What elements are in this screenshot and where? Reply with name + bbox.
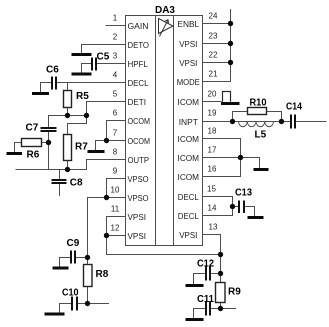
svg-text:13: 13: [209, 223, 218, 232]
svg-text:12: 12: [111, 224, 120, 233]
svg-text:11: 11: [111, 205, 120, 214]
svg-text:10: 10: [111, 186, 120, 195]
svg-text:GAIN: GAIN: [128, 21, 149, 31]
svg-text:VPSO: VPSO: [128, 174, 149, 184]
svg-text:ICOM: ICOM: [178, 172, 200, 182]
svg-text:C7: C7: [26, 123, 39, 134]
svg-text:C5: C5: [97, 52, 110, 63]
svg-text:19: 19: [208, 109, 217, 118]
svg-text:ICOM: ICOM: [178, 153, 200, 163]
svg-text:R5: R5: [76, 91, 89, 102]
svg-text:3: 3: [113, 52, 118, 61]
svg-text:7: 7: [113, 129, 118, 138]
svg-text:1: 1: [113, 14, 118, 23]
svg-text:MODE: MODE: [177, 77, 200, 87]
svg-text:VPSI: VPSI: [179, 39, 197, 49]
svg-text:5: 5: [113, 90, 118, 99]
svg-text:18: 18: [208, 127, 217, 136]
svg-text:R9: R9: [228, 287, 241, 298]
svg-text:DECL: DECL: [178, 192, 199, 202]
svg-text:C10: C10: [62, 288, 79, 299]
svg-text:OUTP: OUTP: [128, 155, 150, 165]
svg-text:9: 9: [113, 167, 118, 176]
svg-text:C13: C13: [235, 188, 252, 199]
svg-text:INPT: INPT: [179, 117, 199, 127]
svg-text:C6: C6: [46, 65, 59, 76]
svg-text:23: 23: [209, 32, 218, 41]
svg-text:ICOM: ICOM: [178, 97, 200, 107]
svg-text:8: 8: [113, 148, 118, 157]
svg-text:14: 14: [208, 204, 217, 213]
svg-text:VPSO: VPSO: [128, 193, 149, 203]
svg-text:DA3: DA3: [155, 5, 175, 16]
svg-text:20: 20: [208, 90, 217, 99]
svg-text:17: 17: [208, 146, 217, 155]
svg-text:DECL: DECL: [128, 78, 149, 88]
svg-text:C8: C8: [70, 178, 83, 189]
svg-text:OCOM: OCOM: [128, 136, 151, 146]
svg-text:R7: R7: [75, 142, 88, 153]
svg-text:2: 2: [113, 33, 118, 42]
svg-text:HPFL: HPFL: [128, 59, 149, 69]
svg-text:C11: C11: [197, 294, 214, 305]
svg-text:VPSI: VPSI: [179, 58, 197, 68]
svg-text:6: 6: [113, 109, 118, 118]
svg-text:24: 24: [209, 12, 218, 21]
svg-text:R10: R10: [250, 98, 267, 109]
svg-text:DETO: DETO: [128, 40, 150, 50]
svg-text:VPSI: VPSI: [128, 231, 147, 241]
svg-text:22: 22: [209, 51, 218, 60]
svg-text:15: 15: [207, 185, 216, 194]
svg-text:L5: L5: [255, 130, 267, 141]
svg-text:ENBL: ENBL: [177, 19, 199, 29]
svg-text:OCOM: OCOM: [128, 116, 151, 126]
svg-text:4: 4: [113, 71, 118, 80]
svg-text:C14: C14: [286, 102, 302, 113]
svg-text:R6: R6: [27, 150, 40, 161]
svg-text:DECL: DECL: [178, 211, 199, 221]
svg-text:R8: R8: [96, 269, 109, 280]
svg-text:C9: C9: [67, 238, 80, 249]
svg-text:ICOM: ICOM: [178, 134, 200, 144]
svg-text:VPSI: VPSI: [128, 212, 147, 222]
svg-text:C12: C12: [197, 259, 214, 270]
svg-text:21: 21: [209, 70, 218, 79]
svg-text:DETI: DETI: [128, 97, 147, 107]
svg-text:VPSI: VPSI: [179, 230, 197, 240]
svg-text:16: 16: [208, 165, 217, 174]
